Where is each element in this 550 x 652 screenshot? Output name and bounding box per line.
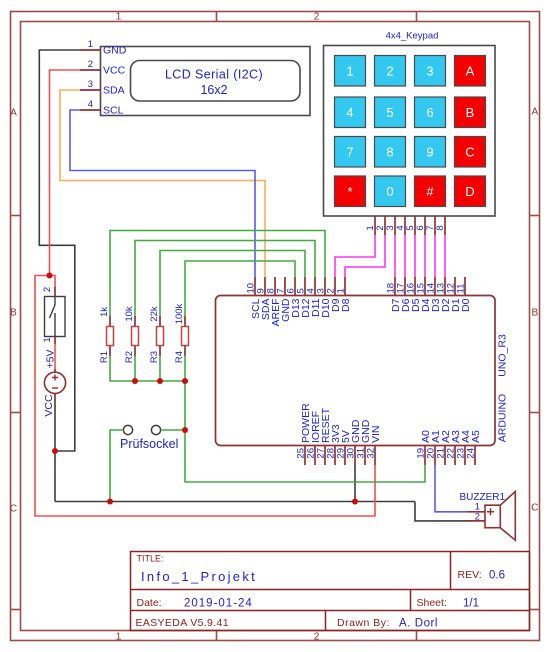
svg-text:GND: GND: [103, 45, 127, 57]
svg-text:2: 2: [314, 631, 320, 642]
wire net GND: arduino pin 30 drop: [354, 465, 356, 502]
svg-text:C: C: [531, 503, 538, 514]
wire bus down to A0 pin 19: [185, 381, 425, 482]
wire right socket pin to node: [161, 429, 185, 431]
svg-text:R1: R1: [99, 351, 110, 363]
wire net GND: VCC- down to bus: [54, 400, 56, 502]
keypad K1 body: [324, 31, 496, 217]
wire net GND: bottom bus: [55, 501, 415, 503]
svg-text:1: 1: [116, 631, 122, 642]
svg-text:1: 1: [42, 337, 53, 342]
LCD title text: [165, 68, 263, 98]
wire R3 top to D12: [160, 251, 305, 317]
wire net VCC: junction to switch pin 2: [50, 276, 56, 288]
svg-text:4: 4: [88, 99, 93, 110]
wire resistor bottom bus: [110, 356, 185, 381]
svg-text:SCL: SCL: [103, 105, 124, 117]
junction socket-left on GND bus: [107, 499, 113, 505]
junction R3 bottom: [157, 378, 163, 384]
svg-text:1: 1: [336, 288, 347, 293]
wire net GND: to buzzer pin 2: [415, 502, 467, 521]
wire keypad pin 2 to D8: [345, 235, 385, 277]
junction socket-right node: [182, 427, 188, 433]
svg-text:BUZZER1: BUZZER1: [460, 492, 506, 503]
arduino pin 4 D11: [306, 277, 323, 317]
svg-text:B: B: [466, 105, 475, 120]
svg-text:11: 11: [456, 284, 467, 294]
wire keypad pin 5 to D5: [414, 235, 416, 277]
wire R3 bottom: [159, 356, 161, 381]
arduino pin 6 D13: [286, 277, 303, 318]
svg-text:2: 2: [475, 512, 480, 523]
switch pin 1: [54, 337, 56, 345]
svg-text:A: A: [466, 64, 475, 79]
keypad pin numbers: [365, 225, 446, 230]
svg-text:ARDUINO: ARDUINO: [497, 394, 509, 442]
arduino UNO_R3 body: [216, 296, 509, 446]
svg-text:C: C: [10, 504, 17, 515]
svg-text:10k: 10k: [124, 306, 135, 322]
wire keypad pin 1 to D9: [335, 235, 375, 277]
arduino pin 9 SDA: [256, 277, 273, 320]
junction R4 bottom: [182, 378, 188, 384]
wire left socket pin to GND bus: [110, 430, 123, 502]
keypad buttons: [335, 56, 486, 207]
svg-text:1/1: 1/1: [463, 598, 479, 610]
svg-text:2: 2: [314, 12, 320, 23]
LCD pin 2 VCC: [80, 59, 126, 77]
arduino pin 2 D9: [326, 277, 343, 312]
svg-text:1: 1: [88, 39, 93, 50]
svg-text:VIN: VIN: [370, 425, 382, 443]
svg-text:REV:: REV:: [458, 569, 482, 581]
svg-text:C: C: [465, 145, 474, 160]
svg-text:R4: R4: [174, 351, 185, 363]
wire A1 pin 20 to buzzer pin 1: [435, 465, 467, 512]
svg-text:24: 24: [466, 448, 477, 459]
arduino pin 1 D8: [336, 277, 353, 312]
LCD pin 1 GND: [80, 39, 127, 57]
svg-text:1k: 1k: [99, 307, 110, 317]
arduino pin 3 D10: [316, 277, 333, 318]
wire switch pin 1 to VCC source +: [54, 344, 56, 369]
svg-text:100k: 100k: [174, 303, 185, 324]
power source VCC +5V: [43, 350, 66, 417]
svg-text:2: 2: [88, 59, 93, 70]
arduino pin 25 POWER: [296, 403, 313, 465]
arduino pin 8 AREF: [266, 277, 283, 327]
svg-text:16x2: 16x2: [200, 83, 227, 97]
svg-text:4: 4: [346, 105, 353, 120]
arduino pin 21 A2: [436, 430, 453, 465]
wire keypad pin 7 to D3: [434, 235, 436, 277]
svg-text:A. Dorl: A. Dorl: [399, 618, 438, 630]
keypad button labels: [346, 64, 474, 200]
svg-text:0.6: 0.6: [489, 570, 505, 582]
svg-text:D0: D0: [460, 298, 472, 312]
arduino pin 15 D4: [416, 277, 433, 312]
svg-text:*: *: [347, 184, 352, 199]
keypad pins 1-8: [375, 216, 445, 235]
LCD pin 3 SDA: [80, 79, 125, 97]
arduino pin 32 VIN: [366, 425, 383, 465]
wire net SDA (orange): [60, 90, 265, 277]
svg-text:0: 0: [386, 184, 393, 199]
svg-text:SDA: SDA: [103, 85, 125, 97]
buzzer pin 2: [467, 520, 485, 522]
svg-text:B: B: [531, 308, 538, 319]
svg-text:Date:: Date:: [137, 597, 162, 609]
svg-text:#: #: [426, 184, 434, 199]
resistor R2: [124, 306, 139, 363]
svg-text:6: 6: [426, 105, 433, 120]
svg-text:1: 1: [116, 12, 122, 23]
svg-text:R3: R3: [149, 351, 160, 363]
svg-text:1: 1: [346, 64, 353, 79]
arduino pin 27 RESET: [316, 407, 333, 465]
svg-text:3: 3: [426, 64, 433, 79]
svg-text:32: 32: [366, 448, 377, 459]
svg-text:A: A: [531, 107, 538, 118]
arduino pin 18 D7: [386, 277, 403, 312]
svg-text:9: 9: [426, 145, 433, 160]
wire R2 top to D11: [135, 241, 315, 317]
wire keypad pin 6 to D4: [424, 235, 426, 277]
svg-text:VCC: VCC: [103, 65, 126, 77]
wire R4 bottom: [184, 356, 186, 381]
svg-text:A: A: [10, 108, 17, 119]
arduino pin 7 GND: [276, 277, 293, 322]
resistor R3: [149, 306, 164, 363]
arduino pin 20 A1: [426, 430, 443, 465]
svg-text:2: 2: [386, 64, 393, 79]
arduino pin 13 D2: [436, 277, 453, 312]
switch S1 (pushbutton) body: [45, 296, 66, 337]
svg-text:3: 3: [88, 79, 93, 90]
junction at GND below source: [52, 448, 58, 454]
wire R4 top to D13: [185, 261, 295, 316]
wire R2 bottom: [134, 356, 136, 381]
wire keypad pin 8 to D2: [444, 235, 446, 277]
junction at VCC split: [47, 273, 53, 279]
connector Pruefsockel (test socket): [120, 425, 178, 451]
wire net VCC: left drop to VIN pin 32: [35, 276, 375, 517]
svg-text:8: 8: [386, 145, 393, 160]
arduino pin 17 D6: [396, 277, 413, 312]
arduino pin 23 A4: [456, 430, 473, 465]
svg-text:LCD Serial (I2C): LCD Serial (I2C): [165, 68, 263, 82]
arduino pin 10 SCL: [246, 277, 263, 319]
svg-text:7: 7: [346, 145, 353, 160]
svg-text:8: 8: [435, 225, 446, 230]
svg-text:2: 2: [42, 287, 53, 292]
arduino pin 14 D3: [426, 277, 443, 312]
wire keypad pin 4 to D6: [404, 235, 406, 277]
svg-text:Prüfsockel: Prüfsockel: [120, 437, 178, 451]
resistor R4: [174, 303, 189, 363]
arduino pin 29 5V: [336, 430, 353, 465]
svg-text:R2: R2: [124, 351, 135, 363]
arduino pin 28 3V3: [326, 424, 343, 465]
arduino pin 31 GND: [356, 419, 373, 465]
arduino pin 22 A3: [446, 430, 463, 465]
svg-text:D8: D8: [340, 298, 352, 312]
arduino pin 11 D0: [456, 277, 473, 312]
wire net VCC: LCD VCC down: [50, 70, 81, 276]
wire keypad pin 3 to D7: [394, 235, 396, 277]
svg-text:D: D: [465, 184, 474, 199]
LCD module U_LCD body: [101, 47, 311, 116]
wire R1 top to D10: [110, 231, 325, 317]
svg-text:EASYEDA V5.9.41: EASYEDA V5.9.41: [136, 617, 229, 629]
svg-text:B: B: [10, 308, 17, 319]
junction pin30 on GND bus: [352, 499, 358, 505]
LCD pin 4 SCL: [80, 99, 124, 117]
wire net SCL (blue): [70, 110, 255, 277]
svg-text:2019-01-24: 2019-01-24: [184, 598, 253, 610]
arduino pin 5 D12: [296, 277, 313, 318]
arduino pin 12 D1: [446, 277, 463, 312]
svg-text:TITLE:: TITLE:: [137, 554, 164, 564]
svg-text:A5: A5: [470, 430, 482, 443]
svg-text:4x4_Keypad: 4x4_Keypad: [386, 31, 439, 42]
svg-text:5: 5: [386, 105, 393, 120]
wire net GND: LCD GND to left drop: [39, 50, 80, 451]
junction R2 bottom: [132, 378, 138, 384]
svg-text:22k: 22k: [149, 306, 160, 322]
arduino pin 19 A0: [416, 430, 433, 465]
arduino pin 24 A5: [466, 430, 483, 465]
svg-text:VCC: VCC: [43, 394, 55, 417]
arduino pin 26 IOREF: [306, 411, 323, 465]
buzzer pin 1: [467, 511, 485, 513]
svg-text:Drawn By:: Drawn By:: [337, 617, 390, 629]
arduino pin 16 D5: [406, 277, 423, 312]
svg-text:Sheet:: Sheet:: [417, 597, 447, 609]
resistor R1: [99, 307, 114, 363]
svg-text:UNO_R3: UNO_R3: [497, 334, 509, 377]
buzzer BUZZER1 body: [460, 492, 516, 541]
switch pin 2: [54, 287, 56, 296]
arduino pin 30 GND: [346, 419, 363, 465]
svg-text:Info_1_Projekt: Info_1_Projekt: [141, 569, 257, 584]
